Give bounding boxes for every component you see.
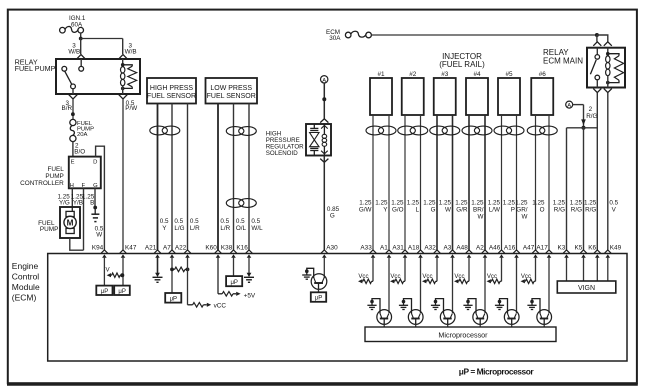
microprocessor box uP (K47) bbox=[114, 286, 130, 295]
ground flag (injector #4 driver) bbox=[463, 299, 476, 314]
svg-text:1.25: 1.25 bbox=[359, 200, 372, 207]
twisted pair marks (injector #6) bbox=[527, 126, 545, 135]
ECM pin A30 bbox=[321, 250, 328, 253]
label 0.5 P/W bbox=[125, 100, 137, 112]
injector #1 box bbox=[370, 78, 392, 115]
svg-text:K16: K16 bbox=[236, 244, 248, 251]
ECM pin A33 bbox=[370, 250, 377, 253]
svg-text:L: L bbox=[415, 207, 419, 214]
svg-text:1.25: 1.25 bbox=[584, 200, 597, 207]
svg-text:E: E bbox=[71, 160, 75, 166]
wire K60 to +5V pull-up bbox=[218, 257, 256, 300]
svg-text:A22: A22 bbox=[175, 244, 187, 251]
wire 1.25 Y/B pin F down bbox=[83, 188, 85, 250]
svg-text:G/O: G/O bbox=[392, 207, 404, 214]
stub to Microprocessor (injector #3) bbox=[447, 324, 449, 327]
ground flag (A30 driver) bbox=[302, 268, 314, 279]
Vcc pull-up (injector #4) bbox=[454, 273, 469, 283]
svg-text:0.5: 0.5 bbox=[251, 218, 260, 225]
wire A7 to microprocessor bbox=[171, 257, 173, 293]
stub to Microprocessor (injector #1) bbox=[383, 324, 385, 327]
svg-text:HIGH PRESS: HIGH PRESS bbox=[150, 85, 194, 92]
wire B/O into controller pin E bbox=[72, 142, 74, 157]
svg-text:A31: A31 bbox=[392, 244, 404, 251]
svg-text:A30: A30 bbox=[326, 244, 338, 251]
svg-text:D: D bbox=[93, 160, 97, 166]
driver transistor Q (injector #5) bbox=[504, 310, 519, 325]
svg-text:G/W: G/W bbox=[359, 207, 372, 214]
svg-text:μP: μP bbox=[315, 296, 322, 302]
ground flag (injector #6 driver) bbox=[527, 299, 540, 314]
wire into driver transistor (injector #6) bbox=[548, 257, 550, 313]
twisted pair marks (injector #1) bbox=[366, 126, 384, 135]
relay ECM MAIN box bbox=[587, 48, 625, 88]
connector A (left) bbox=[321, 76, 328, 84]
ECM pin K5 bbox=[580, 250, 587, 253]
ECM pin K6 bbox=[594, 250, 601, 253]
microprocessor box uP (A7) bbox=[165, 293, 181, 303]
svg-text:R/G: R/G bbox=[571, 207, 582, 214]
svg-text:FUEL SENSOR: FUEL SENSOR bbox=[147, 93, 196, 100]
svg-text:K49: K49 bbox=[610, 244, 622, 251]
svg-text:FUEL PUMP: FUEL PUMP bbox=[15, 64, 56, 73]
twisted pair marks (injector #3) bbox=[430, 126, 448, 135]
svg-text:H: H bbox=[70, 183, 74, 189]
svg-text:B/O: B/O bbox=[74, 149, 85, 156]
injector #2 box bbox=[402, 78, 424, 115]
injector #5 wires bbox=[502, 115, 517, 250]
svg-text:μP: μP bbox=[230, 280, 237, 286]
wire 1.25 R/G to K6 (from relay switch) bbox=[596, 93, 598, 251]
relay ECM main switch bbox=[590, 48, 599, 88]
ECM pin K38 bbox=[230, 250, 237, 253]
ECM pin A17 bbox=[546, 250, 553, 253]
wire K49 to VIGN bbox=[607, 257, 609, 281]
wire G/O into ECM (injector #2 high side) bbox=[404, 257, 406, 282]
label RELAY ECM MAIN bbox=[543, 48, 583, 65]
svg-text:(FUEL RAIL): (FUEL RAIL) bbox=[439, 60, 485, 69]
wire 0.5 L/R to A22 bbox=[187, 104, 189, 251]
svg-text:30A: 30A bbox=[329, 35, 341, 42]
svg-text:#2: #2 bbox=[409, 71, 417, 78]
svg-text:(ECM): (ECM) bbox=[12, 293, 37, 303]
arrows out of relay fuel pump bbox=[69, 95, 78, 99]
svg-text:W: W bbox=[478, 214, 484, 221]
relay ECM main coil with parallel resistor bbox=[606, 48, 624, 88]
svg-text:μP: μP bbox=[170, 296, 177, 302]
svg-text:A48: A48 bbox=[456, 244, 468, 251]
svg-text:Control: Control bbox=[12, 272, 40, 282]
ECM pin K60 bbox=[215, 250, 222, 253]
arrows out of relay ECM main bbox=[593, 89, 601, 93]
label 0.5 W bbox=[95, 225, 104, 238]
svg-text:L/R: L/R bbox=[190, 225, 200, 232]
arrow out of solenoid bbox=[320, 159, 328, 163]
high pressure regulator solenoid box bbox=[306, 124, 331, 156]
Vcc pull-up (injector #3) bbox=[422, 273, 437, 283]
svg-text:LOW PRESS: LOW PRESS bbox=[210, 85, 252, 92]
solenoid coil bbox=[321, 124, 328, 156]
twisted pair marks (injector #2) bbox=[398, 126, 416, 135]
svg-text:#4: #4 bbox=[473, 71, 481, 78]
wire 1.25 R/G to K3 bbox=[566, 128, 568, 250]
svg-text:1.25: 1.25 bbox=[439, 200, 452, 207]
svg-text:R/G: R/G bbox=[554, 207, 565, 214]
wire 1.25 B pin G to ground bbox=[94, 188, 96, 207]
svg-text:FUEL SENSOR: FUEL SENSOR bbox=[207, 93, 256, 100]
driver transistor Q (A30) bbox=[311, 274, 327, 290]
svg-text:1.25: 1.25 bbox=[488, 200, 501, 207]
twisted pair marks (low press sensor, upper) bbox=[226, 127, 244, 136]
ground flag (injector #1 driver) bbox=[367, 299, 380, 314]
svg-text:#3: #3 bbox=[441, 71, 449, 78]
injector #3 wires bbox=[437, 115, 453, 250]
microprocessor box uP (K94) bbox=[96, 286, 112, 295]
svg-text:A2: A2 bbox=[476, 244, 484, 251]
svg-text:A17: A17 bbox=[536, 244, 548, 251]
ground A21 bbox=[153, 273, 163, 283]
stub to Microprocessor (injector #6) bbox=[543, 324, 545, 327]
ECM pin A3 bbox=[449, 250, 456, 253]
svg-text:K38: K38 bbox=[221, 244, 233, 251]
wire 0.5 O/L to K38 bbox=[233, 104, 235, 251]
svg-text:K3: K3 bbox=[557, 244, 565, 251]
svg-text:A: A bbox=[322, 78, 326, 84]
injector #4 box bbox=[466, 78, 488, 115]
injector #1 wires bbox=[373, 115, 389, 250]
wire K5 to VIGN bbox=[583, 257, 585, 281]
svg-text:1.25: 1.25 bbox=[471, 200, 484, 207]
svg-text:0.5: 0.5 bbox=[609, 200, 618, 207]
label 2 R/G bbox=[586, 106, 597, 120]
ECM pin A18 bbox=[417, 250, 424, 253]
fuse IGN.1 60A bbox=[60, 15, 86, 33]
svg-text:A33: A33 bbox=[360, 244, 372, 251]
injector #4 wires bbox=[469, 115, 485, 250]
svg-text:1.25: 1.25 bbox=[455, 200, 468, 207]
svg-text:0.5: 0.5 bbox=[160, 218, 169, 225]
label FUEL PUMP CONTROLLER bbox=[20, 166, 64, 187]
wire B/R to fuel pump fuse bbox=[71, 99, 75, 120]
svg-text:G/R: G/R bbox=[456, 207, 468, 214]
stub to uP (A30) bbox=[318, 289, 320, 292]
svg-text:W: W bbox=[96, 231, 102, 238]
svg-text:G: G bbox=[431, 207, 436, 214]
wire 0.5 W pin D to ECM K94 bbox=[96, 146, 105, 250]
svg-text:#1: #1 bbox=[377, 71, 385, 78]
svg-text:BR/: BR/ bbox=[473, 207, 484, 214]
label HIGH PRESS FUEL SENSOR bbox=[147, 85, 196, 100]
driver transistor Q (injector #3) bbox=[440, 310, 455, 325]
svg-text:Y/G: Y/G bbox=[59, 199, 70, 206]
wire 0.85 G to ECM pin A30 bbox=[323, 156, 325, 251]
pump return lead joining Y/B wire bbox=[70, 238, 84, 250]
ECM pin A21 bbox=[154, 250, 161, 253]
svg-text:0.5: 0.5 bbox=[174, 218, 183, 225]
ECM pin A32 bbox=[434, 250, 441, 253]
injector #3 box bbox=[434, 78, 456, 115]
wire into driver transistor (injector #3) bbox=[452, 257, 454, 313]
svg-text:L/R: L/R bbox=[220, 225, 230, 232]
relay coil with parallel resistor bbox=[121, 59, 137, 94]
driver transistor Q (injector #6) bbox=[537, 310, 552, 325]
svg-text:A21: A21 bbox=[145, 244, 157, 251]
wire G/R into ECM (injector #4 high side) bbox=[468, 257, 470, 282]
arrows into relay ECM main bbox=[593, 42, 601, 46]
svg-text:1.25: 1.25 bbox=[375, 200, 388, 207]
Microprocessor box bbox=[365, 327, 556, 342]
label Engine Control Module (ECM) bbox=[12, 261, 40, 303]
svg-text:1.25: 1.25 bbox=[391, 200, 404, 207]
injector #5 box bbox=[498, 78, 520, 115]
svg-text:μP = Microprocessor: μP = Microprocessor bbox=[459, 367, 535, 377]
wire G into ECM (injector #3 high side) bbox=[436, 257, 438, 282]
svg-text:R/G: R/G bbox=[585, 207, 596, 214]
ECM pin K3 bbox=[563, 250, 570, 253]
label RELAY FUEL PUMP bbox=[15, 58, 56, 73]
svg-text:A47: A47 bbox=[523, 244, 535, 251]
ground flag (injector #5 driver) bbox=[495, 299, 508, 314]
svg-text:K94: K94 bbox=[92, 244, 104, 251]
ECM pin A47 bbox=[532, 250, 539, 253]
svg-text:vCC: vCC bbox=[214, 302, 227, 309]
svg-text:0.5: 0.5 bbox=[236, 218, 245, 225]
label LOW PRESS FUEL SENSOR bbox=[207, 85, 256, 100]
connector A (right) bbox=[566, 101, 573, 109]
ground flag (injector #2 driver) bbox=[399, 299, 412, 314]
svg-text:CONTROLLER: CONTROLLER bbox=[20, 180, 64, 187]
low press fuel sensor box bbox=[206, 78, 258, 104]
svg-text:K47: K47 bbox=[125, 244, 137, 251]
relay switch contacts bbox=[62, 59, 84, 94]
arrows into relay fuel pump bbox=[77, 55, 86, 59]
wire K47 to microprocessor bbox=[122, 257, 124, 286]
svg-text:μP: μP bbox=[118, 289, 125, 295]
ECM pin A48 bbox=[466, 250, 473, 253]
Engine Control Module (ECM) box bbox=[48, 254, 627, 362]
wire 1.25 R/G to K5 bbox=[583, 128, 585, 250]
svg-text:0.5: 0.5 bbox=[220, 218, 229, 225]
svg-text:60A: 60A bbox=[71, 21, 83, 28]
wire A22 to VCC pull-up bbox=[188, 257, 227, 310]
wire 0.5 P/W to ECM pin K47 bbox=[122, 99, 124, 250]
ECM pin A22 bbox=[184, 250, 191, 253]
svg-text:W: W bbox=[522, 214, 528, 221]
wire 0.5 W/L to K16 bbox=[248, 104, 250, 251]
label HIGH PRESSURE REGULATOR SOLENOID bbox=[266, 131, 304, 157]
twisted pair marks (low press sensor, lower) bbox=[226, 199, 244, 208]
svg-text:1.25: 1.25 bbox=[423, 200, 436, 207]
fuse FUEL PUMP 20A bbox=[70, 119, 94, 141]
fuse ECM 30A bbox=[326, 29, 371, 42]
wire 0.5 L/G to A7 bbox=[171, 104, 173, 251]
svg-text:FUEL: FUEL bbox=[47, 166, 64, 173]
svg-text:GR/: GR/ bbox=[516, 207, 527, 214]
wire A30 to driver transistor bbox=[323, 257, 325, 278]
svg-text:1.25: 1.25 bbox=[570, 200, 583, 207]
wire into driver transistor (injector #1) bbox=[388, 257, 390, 313]
wire A21 to ground bbox=[157, 257, 159, 274]
wire W/B feed from IGN fuse bbox=[79, 33, 123, 54]
ECM pin A16 bbox=[513, 250, 520, 253]
ground K16 bbox=[244, 273, 254, 283]
label FUEL PUMP bbox=[38, 220, 58, 233]
ECM pin K49 bbox=[605, 250, 612, 253]
controller pin letters bbox=[70, 160, 98, 189]
arrow into solenoid bbox=[320, 119, 328, 123]
svg-text:Y/B: Y/B bbox=[73, 199, 83, 206]
svg-text:L/G: L/G bbox=[174, 225, 184, 232]
svg-text:SOLENOID: SOLENOID bbox=[266, 150, 299, 157]
injector #6 wires bbox=[536, 115, 550, 250]
svg-text:#6: #6 bbox=[539, 71, 547, 78]
wire into driver transistor (injector #5) bbox=[516, 257, 518, 313]
svg-text:A16: A16 bbox=[504, 244, 516, 251]
svg-text:K60: K60 bbox=[205, 244, 217, 251]
wire 0.5 Y to A21 bbox=[157, 104, 159, 251]
wire from ECM fuse to relay ECM main bbox=[371, 33, 607, 42]
ECM pin A46 bbox=[498, 250, 505, 253]
ground flag (injector #3 driver) bbox=[431, 299, 444, 314]
svg-text:K6: K6 bbox=[588, 244, 596, 251]
wire K38 to microprocessor bbox=[233, 257, 235, 276]
svg-text:A3: A3 bbox=[443, 244, 451, 251]
svg-text:A7: A7 bbox=[163, 244, 171, 251]
svg-text:1.25: 1.25 bbox=[553, 200, 566, 207]
wire K94 to microprocessor bbox=[103, 257, 105, 286]
svg-text:A46: A46 bbox=[489, 244, 501, 251]
svg-text:VIGN: VIGN bbox=[578, 285, 595, 292]
wire K6 to VIGN bbox=[596, 257, 598, 281]
svg-text:F: F bbox=[81, 183, 85, 189]
VIGN box bbox=[557, 281, 616, 293]
svg-text:K5: K5 bbox=[574, 244, 582, 251]
svg-text:A18: A18 bbox=[408, 244, 420, 251]
solenoid suppression zener pair bbox=[310, 124, 319, 156]
svg-text:1.25: 1.25 bbox=[515, 200, 528, 207]
motor M symbol bbox=[64, 211, 76, 233]
stub to Microprocessor (injector #4) bbox=[479, 324, 481, 327]
R/G junction bus bbox=[567, 127, 598, 129]
svg-text:A: A bbox=[567, 103, 571, 109]
svg-text:W/B: W/B bbox=[68, 49, 80, 56]
microprocessor box uP (K38) bbox=[226, 276, 242, 286]
svg-text:1.25: 1.25 bbox=[532, 200, 545, 207]
svg-text:W/L: W/L bbox=[251, 225, 263, 232]
svg-text:G: G bbox=[93, 183, 98, 189]
svg-text:B: B bbox=[90, 199, 94, 206]
svg-text:W: W bbox=[445, 207, 451, 214]
label 3 W/B (left) bbox=[68, 43, 80, 56]
fuel pump controller box bbox=[69, 157, 101, 189]
ECM pin K16 bbox=[246, 250, 253, 253]
ECM pin K94 bbox=[101, 250, 108, 253]
injector #6 box bbox=[531, 78, 553, 115]
ECM pin A31 bbox=[402, 250, 409, 253]
microprocessor box uP (A30) bbox=[311, 292, 326, 302]
svg-text:Engine: Engine bbox=[12, 261, 39, 271]
wire L/W into ECM (injector #5 high side) bbox=[501, 257, 503, 282]
svg-text:P/W: P/W bbox=[125, 105, 137, 112]
ECM pin A2 bbox=[482, 250, 489, 253]
svg-text:+5V: +5V bbox=[244, 293, 256, 300]
injector #2 wires bbox=[405, 115, 421, 250]
label 3 W/B (right) bbox=[125, 43, 137, 56]
svg-text:M: M bbox=[67, 219, 74, 228]
svg-text:O/L: O/L bbox=[236, 225, 247, 232]
label 3 B/R bbox=[62, 100, 73, 112]
stub to Microprocessor (injector #2) bbox=[415, 324, 417, 327]
svg-text:P: P bbox=[511, 207, 515, 214]
relay FUEL PUMP box bbox=[56, 59, 140, 94]
twisted pair marks (injector #4) bbox=[462, 126, 480, 135]
svg-text:1.25: 1.25 bbox=[503, 200, 516, 207]
twisted pair marks (injector #5) bbox=[494, 126, 512, 135]
Vcc pull-up (injector #5) bbox=[487, 273, 502, 283]
svg-text:A32: A32 bbox=[424, 244, 436, 251]
svg-text:L/W: L/W bbox=[489, 207, 500, 214]
svg-text:A1: A1 bbox=[380, 244, 388, 251]
Vcc pull-up (injector #6) bbox=[521, 273, 536, 283]
svg-text:O: O bbox=[540, 207, 545, 214]
svg-text:R/G: R/G bbox=[586, 113, 597, 120]
ECM pin A7 bbox=[169, 250, 176, 253]
label INJECTOR (FUEL RAIL) bbox=[439, 52, 485, 69]
svg-text:G: G bbox=[330, 213, 335, 220]
wire K3 to VIGN bbox=[566, 257, 568, 281]
svg-text:Microprocessor: Microprocessor bbox=[438, 330, 488, 339]
svg-text:PUMP: PUMP bbox=[40, 226, 58, 233]
wire G/W into ECM (injector #1 high side) bbox=[372, 257, 374, 282]
pull-up resistor to V on K47 bbox=[106, 267, 125, 278]
svg-text:B/R: B/R bbox=[62, 105, 73, 112]
svg-text:1.25: 1.25 bbox=[407, 200, 420, 207]
ECM pin K47 bbox=[120, 250, 127, 253]
wire K16 to ground bbox=[248, 257, 250, 274]
high press fuel sensor box bbox=[147, 78, 196, 104]
svg-text:W/B: W/B bbox=[125, 49, 137, 56]
svg-text:0.5: 0.5 bbox=[190, 218, 199, 225]
wire into driver transistor (injector #2) bbox=[420, 257, 422, 313]
twisted pair marks (high press sensor) bbox=[150, 126, 168, 135]
svg-text:μP: μP bbox=[101, 289, 108, 295]
svg-text:20A: 20A bbox=[77, 132, 88, 138]
driver transistor Q (injector #4) bbox=[473, 310, 488, 325]
wire 2 R/G from connector A bbox=[573, 105, 586, 130]
svg-text:#5: #5 bbox=[505, 71, 513, 78]
ECM pin A1 bbox=[386, 250, 393, 253]
Vcc pull-up (injector #2) bbox=[390, 273, 405, 283]
wire 0.5 L/R to K60 bbox=[217, 104, 219, 251]
fuel pump box bbox=[60, 207, 80, 238]
wire from connector A to solenoid bbox=[322, 83, 326, 119]
driver transistor Q (injector #1) bbox=[377, 310, 392, 325]
wire 1.25 Y/G pin H to pump bbox=[71, 188, 73, 212]
svg-text:ECM MAIN: ECM MAIN bbox=[543, 56, 583, 65]
ground for controller pin G bbox=[91, 206, 99, 222]
stub to Microprocessor (injector #5) bbox=[511, 324, 513, 327]
svg-text:Module: Module bbox=[12, 282, 40, 292]
driver transistor Q (injector #2) bbox=[408, 310, 423, 325]
svg-text:PUMP: PUMP bbox=[45, 173, 63, 180]
label 0.85 G bbox=[327, 206, 340, 219]
wire into driver transistor (injector #4) bbox=[484, 257, 486, 313]
wire GR/W into ECM (injector #6 high side) bbox=[535, 257, 537, 282]
wire 0.5 V to K49 (from relay coil) bbox=[607, 93, 609, 251]
label 2 B/O bbox=[74, 143, 85, 156]
Vcc pull-up (injector #1) bbox=[358, 273, 373, 283]
resistor between A7 and A22 bbox=[170, 267, 189, 272]
